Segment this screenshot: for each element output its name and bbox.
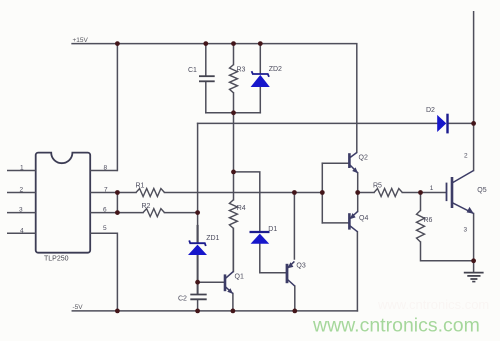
svg-text:Q3: Q3 bbox=[296, 262, 305, 269]
svg-text:C2: C2 bbox=[178, 296, 187, 303]
transistor Q1 bbox=[225, 272, 233, 294]
resistor R6 bbox=[417, 210, 425, 242]
svg-text:8: 8 bbox=[104, 165, 108, 172]
wire output node line y=192.5 bbox=[117, 192, 136, 194]
capacitor C2 bbox=[190, 295, 206, 300]
node D2 cathode join bbox=[471, 121, 476, 126]
resistor R2 bbox=[143, 209, 165, 217]
wire pin5 drop to -5V rail bbox=[90, 233, 118, 311]
IGBT Q5 bbox=[447, 171, 474, 214]
svg-text:Q4: Q4 bbox=[359, 215, 368, 222]
wire pin8 drop from +15V rail bbox=[116, 44, 118, 171]
svg-text:7: 7 bbox=[104, 187, 108, 194]
node emitter R6 join bbox=[471, 258, 476, 263]
resistor R4 bbox=[229, 200, 237, 229]
wire R6 top leg bbox=[420, 193, 422, 211]
transistor Q3 bbox=[287, 261, 295, 286]
svg-text:1: 1 bbox=[20, 165, 24, 172]
capacitor C1 bbox=[199, 76, 215, 81]
diode D2 bbox=[437, 114, 447, 134]
wire D1 anode to Q3 base bbox=[260, 244, 286, 273]
ground bbox=[464, 273, 484, 282]
svg-text:-5V: -5V bbox=[73, 304, 84, 311]
wire R5 to gate bbox=[402, 192, 446, 194]
zener ZD2 bbox=[251, 71, 270, 87]
svg-text:1: 1 bbox=[430, 185, 434, 192]
node rail Q3 bbox=[292, 309, 297, 314]
svg-text:Q2: Q2 bbox=[359, 154, 368, 161]
wire Q3 emitter down bbox=[294, 286, 296, 311]
wire Q4 collector down to -5V rail bbox=[356, 232, 358, 311]
svg-text:6: 6 bbox=[103, 207, 107, 214]
wire R3 legs bbox=[233, 44, 235, 65]
svg-text:Q5: Q5 bbox=[477, 187, 486, 194]
svg-text:R5: R5 bbox=[373, 182, 382, 189]
wire top right vertical collector feed bbox=[473, 12, 475, 171]
wire Q3 collector up to output node bbox=[293, 193, 295, 260]
svg-text:2: 2 bbox=[464, 153, 468, 160]
node gate R6 tap bbox=[418, 190, 423, 195]
svg-text:3: 3 bbox=[464, 227, 468, 234]
node step R4/D1 bbox=[231, 170, 236, 175]
wire Q2 base line bbox=[322, 162, 348, 164]
wire Q4 base line bbox=[322, 222, 348, 224]
node bases tap bbox=[320, 190, 325, 195]
IC U1 TLP250 body bbox=[36, 153, 91, 253]
wire mid rail to D2 bbox=[198, 122, 438, 124]
wire emitter junction to R5 bbox=[358, 192, 374, 194]
transistor Q2 bbox=[349, 152, 358, 173]
node Q3 collector tap bbox=[292, 190, 297, 195]
node top rail pin8 bbox=[115, 41, 120, 46]
wire Q4 emitter to junction bbox=[357, 193, 359, 212]
pin stubs right 8-5 bbox=[90, 171, 117, 234]
pin stubs left 1-4 bbox=[7, 171, 36, 234]
node top rail C1 bbox=[203, 41, 208, 46]
svg-text:+15V: +15V bbox=[73, 37, 89, 44]
wire pin6 line bbox=[117, 212, 143, 214]
wire +15V top rail bbox=[72, 44, 357, 153]
svg-text:ZD2: ZD2 bbox=[269, 66, 282, 73]
node rail C2 bbox=[195, 309, 200, 314]
resistor R3 bbox=[230, 65, 238, 93]
node snubber bottom R3 bbox=[231, 110, 236, 115]
node Q1 base tap bbox=[195, 280, 200, 285]
wire C1 leg bbox=[205, 44, 207, 76]
svg-text:R6: R6 bbox=[424, 217, 433, 224]
node top rail ZD2 bbox=[258, 41, 263, 46]
svg-text:www.cntronics.com: www.cntronics.com bbox=[312, 315, 480, 337]
transistor Q4 bbox=[349, 211, 357, 231]
resistor R1 bbox=[136, 189, 165, 197]
wire R4 branch vertical bbox=[233, 113, 235, 200]
wire Q5 emitter down to ground bbox=[473, 214, 475, 272]
diode D1 bbox=[250, 232, 270, 244]
svg-text:www.cntronics.com: www.cntronics.com bbox=[377, 297, 489, 312]
resistor R5 bbox=[374, 189, 402, 197]
node emitters junction bbox=[355, 190, 360, 195]
wire output line pins7-6 tie bbox=[116, 193, 118, 213]
svg-text:R3: R3 bbox=[237, 67, 246, 74]
svg-text:C1: C1 bbox=[188, 67, 197, 74]
node pin7 tie bbox=[115, 190, 120, 195]
svg-text:TLP250: TLP250 bbox=[44, 255, 69, 262]
wire step to D1 bbox=[234, 172, 260, 231]
svg-text:2: 2 bbox=[20, 187, 24, 194]
zener ZD1 bbox=[188, 240, 207, 255]
svg-text:ZD1: ZD1 bbox=[206, 235, 219, 242]
wire -5V bottom rail bbox=[72, 310, 357, 312]
svg-text:D2: D2 bbox=[426, 107, 435, 114]
node rail pin5 bbox=[115, 309, 120, 314]
wire R6 bottom to emitter node bbox=[421, 242, 474, 261]
wire bases vertical Q2/Q4 bbox=[321, 163, 323, 223]
svg-text:D1: D1 bbox=[268, 226, 277, 233]
svg-text:3: 3 bbox=[19, 207, 23, 214]
node top rail R3 bbox=[231, 41, 236, 46]
svg-text:Q1: Q1 bbox=[235, 273, 244, 280]
wire snubber box bottom bbox=[206, 112, 260, 114]
node pin6 tie bbox=[115, 210, 120, 215]
svg-text:R1: R1 bbox=[136, 182, 145, 189]
svg-text:4: 4 bbox=[20, 227, 24, 234]
svg-text:R2: R2 bbox=[142, 203, 151, 210]
wire ZD2 legs bbox=[259, 44, 261, 74]
node pin6 output bbox=[195, 210, 200, 215]
node rail Q1 emitter bbox=[231, 309, 236, 314]
wire Q1 collector/emitter verticals bbox=[232, 228, 234, 271]
svg-text:R4: R4 bbox=[237, 205, 246, 212]
wire Q2 emitter to junction bbox=[357, 173, 359, 193]
wire Q1 base branch bbox=[198, 281, 225, 283]
wire left drop x=197.6 bbox=[197, 123, 199, 226]
svg-text:5: 5 bbox=[103, 225, 107, 232]
